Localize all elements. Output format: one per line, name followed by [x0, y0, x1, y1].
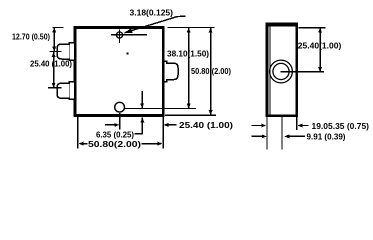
svg-text:9.91 (0.39): 9.91 (0.39) — [307, 131, 346, 141]
ext line side top — [298, 27, 325, 29]
svg-text:25.40 (1.00): 25.40 (1.00) — [179, 120, 233, 130]
ext line hole center vertical — [119, 113, 121, 130]
ext line hole center horizontal — [125, 108, 197, 110]
terminal T1 barrel — [57, 44, 69, 59]
dim line 38.10 — [188, 28, 190, 109]
terminal T2 flange — [69, 82, 75, 100]
dim line 25.40 left — [53, 51, 55, 87]
dim 25.40 bottom right arrow — [163, 123, 168, 127]
side view body — [267, 25, 297, 116]
dim 50.80 bottom — [78, 142, 83, 146]
terminal T1 flange — [69, 43, 75, 61]
svg-text:19.05.35 (0.75): 19.05.35 (0.75) — [312, 121, 370, 131]
leader arrowhead — [124, 28, 132, 33]
terminal T2 barrel — [57, 83, 69, 98]
top hole crosshair v — [119, 29, 121, 43]
ext line side bottom center — [281, 117, 283, 150]
front hole circle — [115, 102, 125, 112]
svg-text:38.10(1.50): 38.10(1.50) — [167, 49, 209, 59]
front view body — [75, 28, 163, 116]
ext line top-left — [52, 27, 63, 29]
dim 6.35 upper arrow — [141, 91, 143, 108]
ext line side bottom right — [296, 117, 298, 130]
dim line 12.70 — [53, 28, 55, 52]
side view inner face line — [269, 27, 271, 115]
bushing outer circle — [270, 60, 293, 83]
dim 9.91 row — [251, 135, 262, 137]
top hole circle — [116, 32, 122, 38]
dim 25.40 side — [319, 28, 321, 72]
ext line left edge down — [77, 117, 79, 149]
dim 19.05 row — [251, 125, 262, 127]
ext line bushing center — [281, 71, 324, 73]
dim line 50.80 right — [210, 28, 212, 115]
ext line side bottom left — [266, 117, 268, 150]
dim 6.35 hook — [135, 133, 143, 135]
svg-text:3.18(0.125): 3.18(0.125) — [130, 7, 174, 17]
dim 25.40 bottom left arrow — [105, 124, 116, 126]
top hole crosshair h — [111, 34, 147, 36]
svg-text:12.70 (0.50): 12.70 (0.50) — [12, 31, 50, 41]
ext line top-right — [168, 27, 215, 29]
dim 6.35 lower arrow — [141, 118, 143, 134]
leader line to top hole — [125, 16, 186, 33]
ext line bottom-right corner — [165, 114, 216, 116]
svg-text:25.40(1.00): 25.40(1.00) — [298, 40, 342, 50]
bushing inner circle — [273, 63, 289, 79]
ext line terminal1 center — [50, 50, 62, 52]
svg-text:50.80(2.00): 50.80(2.00) — [88, 139, 141, 149]
stray dot — [127, 53, 129, 55]
svg-text:50.80 (2.00): 50.80 (2.00) — [191, 66, 231, 76]
svg-text:25.40 (1.00): 25.40 (1.00) — [30, 59, 72, 69]
terminal T3 barrel right — [166, 63, 178, 79]
terminal T3 flange right — [164, 61, 167, 81]
ext line right edge down — [162, 117, 164, 149]
ext line terminal2 center — [48, 87, 62, 89]
